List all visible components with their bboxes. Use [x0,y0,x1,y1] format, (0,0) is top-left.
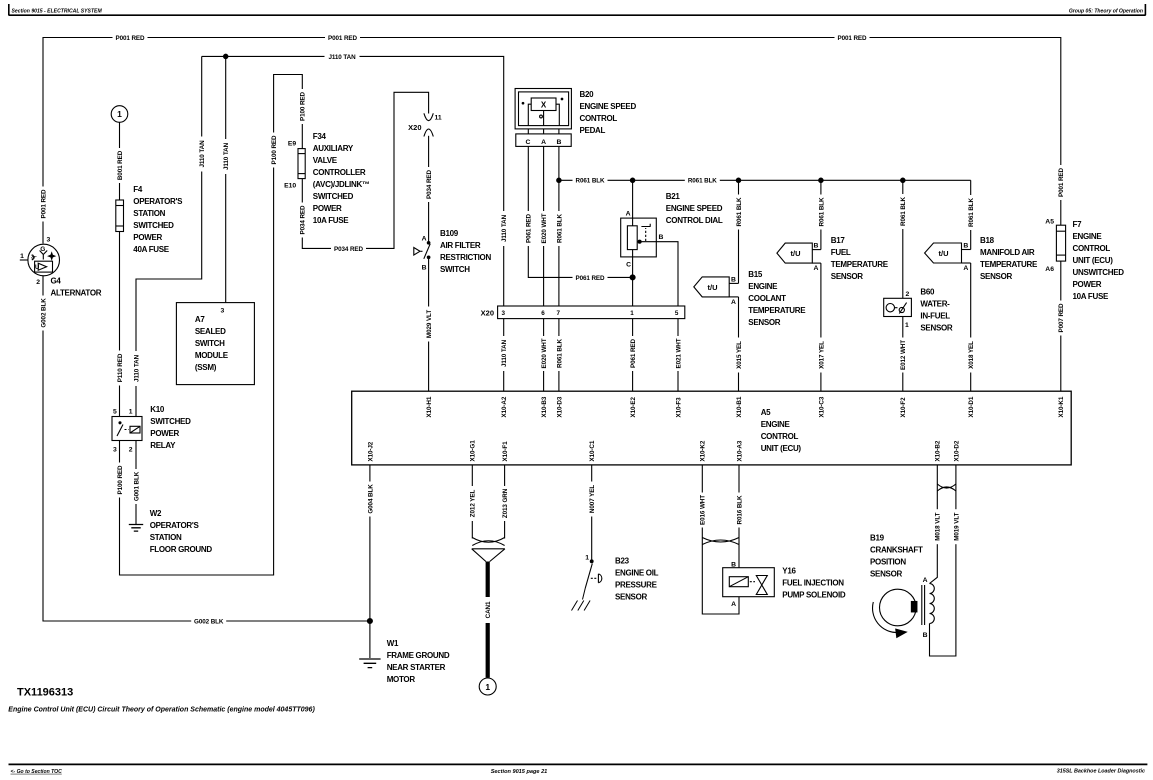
svg-text:P100 RED: P100 RED [271,135,278,165]
svg-text:P001 RED: P001 RED [1058,167,1065,197]
wire CAN1 shielded cable [486,562,490,678]
sensor B23 switch blade [590,560,593,563]
svg-text:E020 WHT: E020 WHT [541,338,548,368]
svg-text:J110 TAN: J110 TAN [501,214,508,242]
sensor B19 rotor circle [880,589,917,626]
svg-text:B: B [659,234,664,241]
svg-text:X10-D2: X10-D2 [953,440,960,461]
wire Z012 YEL ECU X10-G1 to CAN twist [471,465,473,539]
solenoid Y16 valve symbol [756,576,767,595]
svg-text:E021 WHT: E021 WHT [675,338,682,368]
wire X017 YEL sensor B17 pin A to ECU X10-C3 [820,263,822,391]
svg-text:R016 BLK: R016 BLK [736,495,743,524]
wire X015 YEL sensor B15 pin A to ECU X10-B1 [738,297,740,391]
wire E020 WHT connector X20 pin 6 to ECU X10-B3 [543,319,545,392]
svg-text:P001 RED: P001 RED [40,189,47,219]
svg-text:t/U: t/U [939,249,949,258]
CAN twisted pair symbol [472,538,504,546]
sensor B19 core lines [922,585,925,625]
svg-text:A: A [814,265,819,272]
svg-text:Section 9015 - ELECTRICAL SYST: Section 9015 - ELECTRICAL SYSTEM [12,9,103,15]
sensor B17 t/U symbol [777,243,812,263]
svg-text:1: 1 [585,555,589,562]
svg-text:X10-A3: X10-A3 [736,440,743,461]
svg-text:A: A [731,299,736,306]
fuse F34 body [298,149,305,179]
node junction R061 BLK at B15 [736,178,740,182]
wire R061 BLK drop to sensor B17 pin B [820,180,822,249]
stub sensor B15 pin A [729,296,738,298]
svg-text:R061 BLK: R061 BLK [900,196,907,225]
ground W2 symbol [129,525,143,532]
sensor B19 pickup coil [930,584,935,624]
svg-text:P100 RED: P100 RED [117,465,124,495]
svg-text:G002 BLK: G002 BLK [40,298,47,328]
svg-text:E9: E9 [288,140,297,147]
wire M019 VLT sensor B19 coil pin B to ECU X10-D2 [930,465,956,656]
svg-text:E016 WHT: E016 WHT [700,495,707,525]
svg-text:J110 TAN: J110 TAN [133,354,140,382]
sensor B23 pressure actuator [591,577,597,579]
alternator G4 internal Y winding [40,251,48,260]
svg-text:J110 TAN: J110 TAN [199,140,206,168]
svg-text:X10-K1: X10-K1 [1058,396,1065,417]
svg-text:A: A [626,211,631,218]
connector X20 pin 11 symbol [424,113,433,136]
svg-text:X10-D1: X10-D1 [968,396,975,417]
svg-text:7: 7 [556,310,560,317]
svg-text:N007 YEL: N007 YEL [589,485,596,513]
svg-text:G001 BLK: G001 BLK [133,471,140,501]
svg-text:A: A [422,236,427,243]
wire G001 BLK relay K10 pin 2 to ground W2 [135,441,137,525]
sensor B18 t/U symbol [925,243,962,263]
switch B109 blade and contacts [427,242,430,245]
ground W1 symbol [359,659,380,668]
wire J110 TAN branch to module A7 pin 3 [225,56,227,302]
svg-text:J110 TAN: J110 TAN [223,142,230,170]
svg-text:3: 3 [47,237,51,244]
svg-text:X20: X20 [408,123,421,132]
wire P110 RED fuse F4 to relay K10 pin 5 [119,232,121,417]
svg-text:R061 BLK: R061 BLK [576,178,605,185]
wire X018 YEL sensor B18 pin A to ECU X10-D1 [970,263,972,391]
svg-text:CAN1: CAN1 [485,601,492,618]
svg-text:R061 BLK: R061 BLK [818,197,825,226]
svg-text:<- Go to Section TOC: <- Go to Section TOC [11,769,63,775]
header rule [9,14,1146,16]
header right bar [1144,4,1146,15]
svg-text:1: 1 [20,253,24,260]
svg-text:X10-B2: X10-B2 [935,440,942,461]
svg-text:11: 11 [435,115,442,122]
wire E012 WHT sensor B60 pin 1 to ECU X10-F2 [902,317,904,392]
svg-text:C: C [626,262,631,269]
svg-text:X10-F3: X10-F3 [675,397,682,418]
svg-text:B: B [731,276,736,283]
svg-text:3~: 3~ [31,255,37,261]
stub sensor B17 pin B [812,249,821,251]
svg-text:P001 RED: P001 RED [838,35,868,42]
svg-text:X018 YEL: X018 YEL [968,341,975,369]
svg-text:X10-B1: X10-B1 [736,396,743,417]
wire R016 BLK ECU X10-A3 to solenoid Y16 pin B [738,465,740,568]
solenoid Y16 coil element [729,577,748,587]
wire R061 BLK drop to sensor B15 pin B [738,180,740,283]
svg-text:B: B [556,139,561,146]
node junction R061 BLK at dial A [630,178,634,182]
svg-text:J110 TAN: J110 TAN [328,54,356,61]
svg-text:Section 9015 page 21: Section 9015 page 21 [491,769,548,775]
ECU A5 box [352,391,1071,465]
alternator G4 pin 1 stub [20,259,28,261]
svg-text:5: 5 [675,310,679,317]
svg-text:G: G [40,246,45,253]
sensor B19 rotation arrow [873,602,898,633]
fuse F7 body [1056,225,1065,261]
svg-text:P034 RED: P034 RED [300,205,307,235]
node junction J110 TAN / A7 branch [224,54,228,58]
svg-text:P001 RED: P001 RED [116,35,146,42]
svg-text:B: B [422,265,427,272]
svg-text:X10-F1: X10-F1 [502,441,509,462]
svg-text:P061 RED: P061 RED [526,213,533,243]
svg-text:6: 6 [541,310,545,317]
wire J110 TAN bus to connector X20 pin 3 [202,56,504,306]
wire P034 RED fuse F34 pin E10 to connector X20 pin 11 [302,92,428,248]
svg-text:R061 BLK: R061 BLK [556,338,563,367]
svg-text:1: 1 [117,109,122,119]
svg-text:X10-F2: X10-F2 [900,397,907,418]
stub sensor B15 pin B [729,282,738,284]
node junction R061 BLK at B60 [901,178,905,182]
stub sensor B17 pin A [812,262,821,264]
svg-text:2: 2 [36,279,40,286]
svg-text:P001 RED: P001 RED [328,35,358,42]
pedal B20 inner element [531,98,556,111]
svg-text:G002 BLK: G002 BLK [194,618,224,625]
svg-text:G004 BLK: G004 BLK [367,484,374,514]
relay K10 switch blade [119,422,121,424]
twisted pair symbol B19 [937,484,956,491]
svg-text:t/U: t/U [708,283,718,292]
svg-text:TX1196313: TX1196313 [17,687,73,699]
wire E016 WHT ECU X10-K2 to solenoid Y16 pin A [702,465,739,614]
svg-text:R061 BLK: R061 BLK [688,178,717,185]
wire M018 VLT ECU X10-B2 to sensor B19 coil pin A [930,465,938,584]
wire P100 RED relay K10 pin 3 loop to fuse F34 pin E9 [120,75,303,576]
svg-text:P034 RED: P034 RED [426,169,433,199]
svg-text:Z012 YEL: Z012 YEL [470,490,477,518]
wire N007 YEL ECU X10-C1 to sensor B23 pin 1 [591,465,593,560]
svg-text:M018 VLT: M018 VLT [935,512,942,540]
node junction R061 BLK at B17 [819,178,823,182]
alternator G4 star [47,251,56,261]
svg-text:P100 RED: P100 RED [300,91,307,121]
sensor B15 t/U symbol [694,277,729,297]
svg-text:A: A [923,577,928,584]
stub sensor B18 pin A [962,262,971,264]
CAN funnel [472,549,505,562]
ECU top pin labels [426,396,433,417]
wire P001 RED top bus [43,38,1061,244]
svg-text:R061 BLK: R061 BLK [736,197,743,226]
svg-text:P034 RED: P034 RED [334,246,364,253]
sensor B60 box [884,298,912,316]
wire R061 BLK pedal B20 pin B to connector X20 pin 7 [558,146,560,306]
svg-text:R061 BLK: R061 BLK [556,213,563,242]
wire P061 RED pedal B20 pin C to dial B21 pin C [528,146,632,277]
dial B21 box [621,218,657,257]
svg-text:E10: E10 [284,183,296,190]
svg-text:X20: X20 [481,309,494,318]
wire G004 BLK ECU X10-J2 to ground W1 [369,465,371,658]
wire G002 BLK from alternator pin 2 to frame ground junction [43,275,370,621]
fuse F4 body [116,200,124,232]
relay K10 coil [130,426,140,433]
svg-text:A: A [963,265,968,272]
wire R061 BLK sensor bus [559,179,971,181]
svg-text:P007 RED: P007 RED [1058,303,1065,333]
wire J110 TAN relay K10 pin 1 to bus [136,56,202,416]
wire E021 WHT connector X20 pin 5 to ECU X10-F3 [677,319,679,392]
pedal B20 outer box [515,89,571,129]
wire R061 BLK bus end drop to sensor B18 pin B [970,180,972,249]
svg-text:X017 YEL: X017 YEL [818,341,825,369]
svg-text:P061 RED: P061 RED [630,338,637,368]
dial B21 potentiometer [627,226,637,250]
svg-text:X10-C1: X10-C1 [589,440,596,461]
wire R061 BLK connector X20 pin 7 to ECU X10-D3 [558,319,560,392]
wire P061 RED connector X20 pin 1 to ECU X10-E2 [632,319,634,392]
svg-text:P110 RED: P110 RED [117,353,124,382]
wire R061 BLK drop to dial B21 pin A [632,180,634,226]
svg-text:B: B [963,242,968,249]
svg-text:P061 RED: P061 RED [576,275,606,282]
connector circle 1 bottom [479,678,496,695]
svg-text:E012 WHT: E012 WHT [900,340,907,370]
wire label CAN1 [483,597,492,623]
svg-text:5: 5 [113,409,117,416]
node junction P061 RED at dial C [630,275,635,280]
alternator G4 pin 1 connector arc [32,255,34,260]
svg-text:Z013 GRN: Z013 GRN [502,488,509,518]
svg-text:3: 3 [501,310,505,317]
stub sensor B18 pin B [962,249,971,251]
svg-text:A6: A6 [1045,266,1054,273]
header left bar [8,4,10,15]
svg-text:X10-J2: X10-J2 [367,441,374,461]
wire labels (rotated) [39,187,48,222]
svg-text:X10-G1: X10-G1 [470,440,477,462]
twisted pair symbol Y16 [702,538,739,545]
svg-text:J110 TAN: J110 TAN [501,339,508,367]
svg-text:A: A [541,139,546,146]
svg-text:X10-C3: X10-C3 [818,396,825,417]
svg-text:315SL Backhoe Loader Diagnosti: 315SL Backhoe Loader Diagnostic [1057,769,1145,775]
wire labels (horizontal) [113,33,148,42]
svg-text:A: A [731,601,736,608]
svg-text:Engine Control Unit (ECU) Circ: Engine Control Unit (ECU) Circuit Theory… [8,707,315,714]
svg-text:B: B [731,562,736,569]
svg-text:X10-D3: X10-D3 [556,396,563,417]
connector X20 strip [498,306,685,319]
svg-text:X: X [541,101,547,110]
node junction G002 BLK / G004 BLK at W1 [367,619,372,624]
svg-text:1: 1 [485,682,490,692]
sensor B23 chassis ground [572,588,591,611]
alternator G4 circle [28,244,60,276]
svg-text:B001 RED: B001 RED [117,150,124,180]
svg-text:3: 3 [221,308,225,315]
alternator G4 regulator box with triangle [35,261,53,272]
relay K10 box [112,417,142,441]
svg-text:Group 05: Theory of Operation: Group 05: Theory of Operation [1069,9,1143,15]
svg-text:X10-B3: X10-B3 [541,396,548,417]
svg-text:1: 1 [129,409,133,416]
svg-text:1: 1 [630,310,634,317]
wire R061 BLK drop to sensor B60 pin 2 [902,180,904,298]
pedal B20 pin strip [516,134,571,147]
wire dial B21 pin B to connector X20 pin 5 [640,242,678,306]
svg-text:1: 1 [905,322,909,329]
svg-text:U: U [35,265,39,271]
wire dial B21 pin C drop to connector X20 pin 1 [632,250,634,306]
svg-text:2: 2 [129,447,133,454]
wire J110 TAN connector X20 pin 3 to ECU X10-A2 [503,319,505,392]
svg-text:3: 3 [113,447,117,454]
wire E020 WHT pedal B20 pin A to connector X20 pin 6 [543,146,545,306]
svg-text:X10-A2: X10-A2 [501,396,508,417]
svg-text:X10-H1: X10-H1 [426,396,433,417]
wire B001 RED circle 1 to fuse F4 [119,123,121,201]
node junction R061 BLK at pedal B [557,178,561,182]
svg-text:M029 VLT: M029 VLT [426,310,433,338]
svg-text:A5: A5 [1045,219,1054,226]
svg-text:X10-K2: X10-K2 [700,440,707,461]
svg-text:E020 WHT: E020 WHT [541,213,548,243]
svg-text:R061 BLK: R061 BLK [968,197,975,226]
switch B109 actuator [414,248,420,256]
svg-text:B: B [814,242,819,249]
footer rule [9,763,1148,765]
svg-text:X10-E2: X10-E2 [630,396,637,417]
svg-text:B: B [923,632,928,639]
svg-text:C: C [525,139,530,146]
wire P034 RED connector X20 pin 11 to switch B109 pin A [428,136,430,242]
wire Z013 GRN ECU X10-F1 to CAN twist [504,465,506,539]
wire M029 VLT switch B109 pin B to ECU X10-H1 [428,258,430,391]
svg-text:2: 2 [906,291,910,298]
ECU bottom pin labels [367,441,374,461]
connector circle 1 top left [111,106,128,123]
wire P007 RED fuse F7 pin A6 to ECU X10-K1 [1060,261,1062,391]
svg-text:X015 YEL: X015 YEL [736,341,743,369]
svg-text:M019 VLT: M019 VLT [953,512,960,540]
solenoid Y16 box [723,568,775,597]
svg-text:t/U: t/U [791,249,801,258]
module A7 box [176,303,254,385]
